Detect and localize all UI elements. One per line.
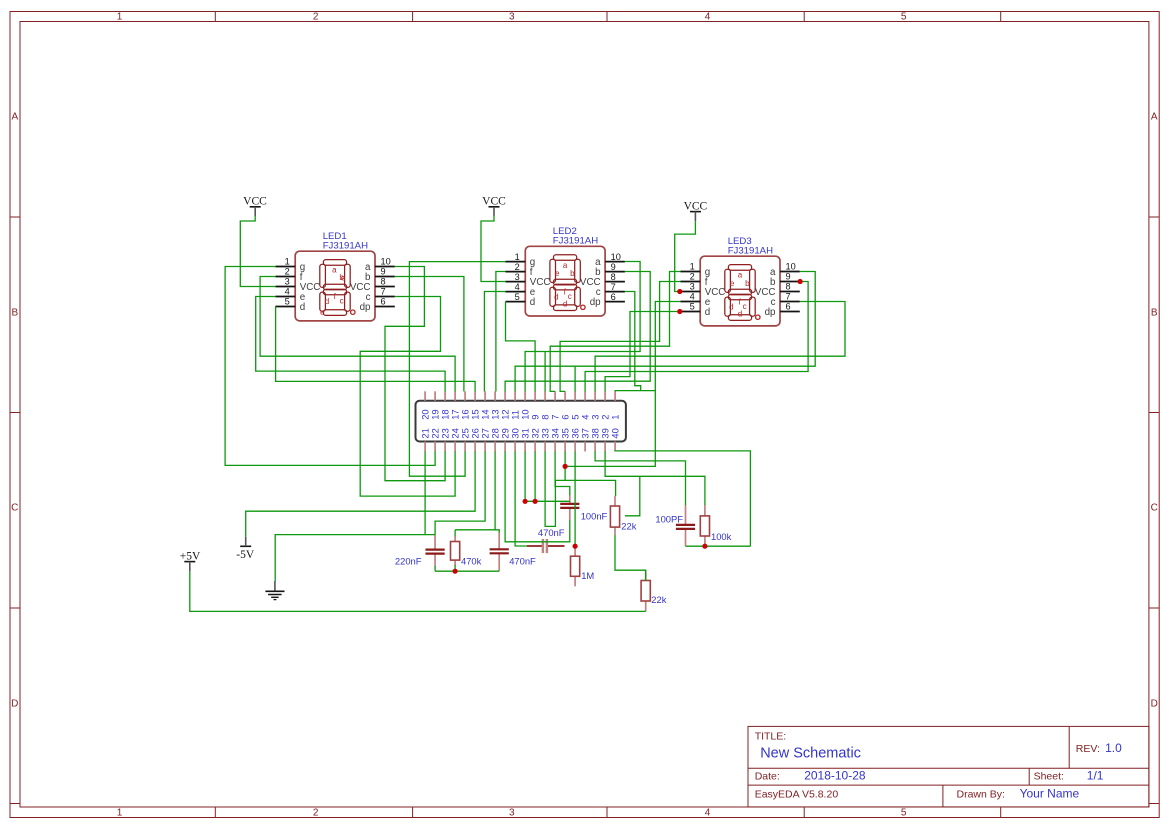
wire U1 pin39 to 100k: [605, 451, 705, 505]
svg-text:e: e: [320, 308, 325, 317]
capacitor C? 470nF (horizontal): [527, 527, 565, 553]
wire LED3 c to U1 pin3: [595, 302, 845, 392]
svg-text:10: 10: [786, 262, 796, 272]
svg-text:d: d: [738, 310, 742, 319]
junction node: [533, 499, 538, 504]
LED2 pin 4 (e): [506, 291, 526, 293]
wire U1 pin31 junction: [524, 451, 526, 501]
U1 pin 32: [534, 442, 536, 452]
svg-text:d: d: [554, 293, 558, 302]
U1 pin 21: [424, 442, 426, 452]
svg-text:A: A: [1151, 112, 1158, 123]
wire -5V to U1 pin26: [246, 451, 475, 537]
7-segment display LED3 FJ3191AH: [680, 236, 799, 326]
U1 pin 7: [554, 391, 556, 401]
wire LED1 a to U1 pin23: [385, 267, 445, 481]
wire VCC to LED1 pin3: [240, 216, 276, 287]
U1 pin 35: [564, 442, 566, 452]
svg-text:Sheet:: Sheet:: [1034, 770, 1064, 782]
svg-text:TITLE:: TITLE:: [755, 731, 787, 743]
svg-text:5: 5: [515, 292, 520, 302]
junction node: [523, 499, 528, 504]
svg-text:c: c: [340, 297, 344, 306]
LED1 pin 6 (dp): [375, 306, 395, 308]
U1 pin 17: [454, 391, 456, 401]
wire LED2 g to U1 pin25: [409, 262, 505, 477]
svg-text:2018-10-28: 2018-10-28: [804, 768, 866, 782]
LED2 pin 8 (VCC): [605, 281, 625, 283]
svg-text:1: 1: [609, 415, 620, 420]
U1 pin 29: [504, 442, 506, 452]
U1 pin 4: [584, 391, 586, 401]
svg-text:d: d: [705, 307, 710, 318]
svg-text:c: c: [743, 302, 747, 311]
LED1 pin 3 (VCC): [275, 286, 295, 288]
U1 pin 2: [604, 391, 606, 401]
LED2 pin 6 (dp): [605, 301, 625, 303]
svg-text:100nF: 100nF: [581, 511, 608, 522]
wire U1 pin5 tap: [574, 366, 576, 391]
wire LED2 f to U1 pin13: [496, 272, 506, 392]
wire 470k top lead: [454, 530, 456, 536]
U1 pin 37: [584, 442, 586, 452]
svg-text:40: 40: [609, 428, 620, 438]
svg-text:9: 9: [611, 262, 616, 272]
wire ground rail: [275, 535, 435, 581]
U1 pin 8: [544, 391, 546, 401]
svg-text:1: 1: [690, 262, 695, 272]
svg-text:New Schematic: New Schematic: [760, 746, 861, 762]
wire 470k to 470nF cap: [455, 530, 499, 533]
wire U1 pin33 link: [545, 451, 555, 526]
svg-text:220nF: 220nF: [395, 555, 422, 566]
svg-text:3: 3: [515, 272, 520, 282]
svg-text:Drawn By:: Drawn By:: [957, 789, 1005, 801]
wire LED3 e to U1 pin1: [615, 302, 680, 392]
svg-text:C: C: [11, 503, 18, 514]
wire LED1 c to U1 pin24: [360, 297, 455, 497]
wire LED2 d to U1 pin9: [506, 302, 536, 392]
svg-text:4: 4: [515, 282, 520, 292]
svg-text:1: 1: [285, 257, 290, 267]
net flag VCC (LED3): [684, 201, 708, 222]
svg-text:d: d: [563, 300, 567, 309]
U1 pin 15: [474, 391, 476, 401]
IC U1 40-pin connector: [416, 391, 626, 451]
junction node: [798, 279, 803, 284]
U1 pin 12: [504, 391, 506, 401]
svg-text:e: e: [555, 269, 560, 278]
svg-text:dp: dp: [360, 302, 371, 313]
wire U1 pin30 to 470nF cap: [515, 451, 527, 546]
svg-text:dp: dp: [590, 297, 601, 308]
svg-text:a: a: [332, 266, 337, 275]
svg-text:2: 2: [285, 267, 290, 277]
wire passives bottom bus: [435, 570, 499, 572]
wire U1 pin38 to 100PF: [595, 451, 685, 505]
7-segment display LED2 FJ3191AH: [506, 226, 625, 316]
svg-text:REV:: REV:: [1076, 743, 1100, 755]
wire node bus pins31-32 to 100nF: [524, 500, 570, 502]
U1 pin 18: [444, 391, 446, 401]
U1 pin 27: [484, 442, 486, 452]
LED1 pin 10 (a): [375, 266, 395, 268]
U1 pin 14: [484, 391, 486, 401]
wire node link to 22k: [555, 480, 615, 496]
svg-text:c: c: [568, 292, 572, 301]
svg-text:Date:: Date:: [755, 770, 780, 782]
U1 pin 31: [524, 442, 526, 452]
U1 pin 6: [564, 391, 566, 401]
svg-text:2: 2: [690, 272, 695, 282]
LED3 pin 1 (g): [680, 271, 700, 273]
svg-text:d: d: [325, 297, 329, 306]
svg-text:1: 1: [117, 11, 123, 22]
svg-text:100k: 100k: [711, 531, 732, 542]
svg-text:d: d: [530, 297, 535, 308]
svg-text:VCC: VCC: [482, 196, 506, 208]
svg-text:4: 4: [705, 11, 711, 22]
svg-text:8: 8: [786, 282, 791, 292]
wire 470k bottom lead link: [454, 565, 456, 571]
wire U1 pin29 to 100nF bottom: [505, 451, 570, 542]
wire VCC to LED3 pin3: [675, 221, 696, 291]
wire U1 pin8 tap: [544, 352, 546, 392]
svg-text:9: 9: [786, 272, 791, 282]
net flag VCC (LED2): [482, 196, 506, 216]
wire LED3 d to U1 pin2: [605, 312, 681, 392]
U1 pin 36: [574, 442, 576, 452]
svg-text:2: 2: [313, 11, 319, 22]
wire LED3 g to U1 pin7: [550, 272, 680, 392]
svg-text:a: a: [738, 271, 743, 280]
svg-text:4: 4: [690, 292, 695, 302]
U1 pin 23: [444, 442, 446, 452]
svg-text:9: 9: [381, 267, 386, 277]
wire stub branch near 22k: [625, 476, 640, 516]
ground symbol: [265, 581, 284, 600]
svg-text:5: 5: [901, 807, 907, 818]
U1 pin 5: [574, 391, 576, 401]
wire LED2 c down: [625, 292, 641, 391]
U1 pin 11: [514, 391, 516, 401]
junction node: [677, 289, 682, 294]
svg-text:5: 5: [690, 302, 695, 312]
svg-text:3: 3: [509, 11, 515, 22]
wire LED1 e to U1 pin18: [256, 297, 445, 392]
LED3 pin 5 (d): [680, 311, 700, 313]
U1 pin 38: [594, 442, 596, 452]
svg-text:dp: dp: [765, 307, 776, 318]
junction node: [563, 464, 568, 469]
svg-text:4: 4: [705, 807, 711, 818]
U1 pin 24: [454, 442, 456, 452]
resistor R? 100k: [700, 505, 731, 546]
capacitor C? 220nF: [395, 535, 445, 567]
LED1 pin 1 (g): [275, 266, 295, 268]
net flag +5V: [180, 551, 201, 572]
wire LED3 f to U1 pin6: [560, 282, 680, 392]
wire U1 pin36 to 1M: [574, 451, 576, 546]
U1 pin 20: [424, 391, 426, 401]
resistor R? 1M: [571, 546, 595, 586]
U1 pin 16: [464, 391, 466, 401]
resistor R? 470k: [451, 536, 482, 566]
wire 22k to 22k: [615, 535, 646, 581]
resistor R? 22k: [610, 496, 636, 535]
U1 pin 30: [514, 442, 516, 452]
wire LED2 e to U1 pin14: [484, 292, 505, 392]
svg-text:3: 3: [509, 807, 515, 818]
svg-text:2: 2: [515, 262, 520, 272]
U1 pin 26: [474, 442, 476, 452]
svg-text:e: e: [341, 274, 346, 283]
LED2 pin 9 (b): [605, 271, 625, 273]
wire LED3 a to U1 pin11: [515, 272, 815, 392]
LED3 pin 7 (c): [780, 301, 800, 303]
net flag VCC (LED1): [243, 196, 267, 216]
U1 pin 22: [434, 442, 436, 452]
LED2 pin 3 (VCC): [506, 281, 526, 283]
svg-text:7: 7: [611, 282, 616, 292]
svg-text:7: 7: [786, 292, 791, 302]
svg-text:FJ3191AH: FJ3191AH: [553, 236, 598, 247]
LED1 pin 5 (d): [275, 306, 295, 308]
svg-text:B: B: [1151, 308, 1158, 319]
svg-text:5: 5: [901, 11, 907, 22]
7-segment display LED1 FJ3191AH: [275, 231, 394, 321]
svg-text:3: 3: [285, 277, 290, 287]
wire VCC to LED2 pin3: [481, 216, 506, 282]
wire LED1 f to U1 pin17: [260, 277, 455, 392]
LED3 pin 2 (f): [680, 281, 700, 283]
LED3 pin 3 (VCC): [680, 291, 700, 293]
svg-text:b: b: [745, 279, 750, 288]
svg-text:b: b: [570, 269, 575, 278]
capacitor C? 100nF: [560, 495, 607, 522]
LED1 pin 4 (e): [275, 296, 295, 298]
U1 pin 40: [614, 442, 616, 452]
svg-text:1: 1: [117, 807, 123, 818]
svg-text:Your Name: Your Name: [1020, 787, 1080, 801]
U1 pin 33: [544, 442, 546, 452]
svg-text:3: 3: [690, 282, 695, 292]
U1 pin 25: [464, 442, 466, 452]
svg-text:7: 7: [381, 287, 386, 297]
U1 pin 19: [434, 391, 436, 401]
U1 pin 39: [604, 442, 606, 452]
svg-text:D: D: [1151, 699, 1158, 710]
LED1 pin 8 (VCC): [375, 286, 395, 288]
svg-text:10: 10: [381, 257, 391, 267]
svg-text:EasyEDA V5.8.20: EasyEDA V5.8.20: [755, 789, 839, 801]
LED2 pin 5 (d): [506, 301, 526, 303]
svg-text:100PF: 100PF: [655, 514, 683, 525]
wire LED1 d to U1 pin15: [276, 307, 476, 392]
LED1 pin 2 (f): [275, 276, 295, 278]
U1 pin 28: [494, 442, 496, 452]
wire U1 pin34 to 100nF top: [555, 451, 570, 495]
svg-text:FJ3191AH: FJ3191AH: [728, 246, 773, 257]
wire U1 pin27 to 220nF: [435, 451, 485, 535]
svg-text:2: 2: [313, 807, 319, 818]
svg-text:-5V: -5V: [236, 549, 255, 561]
wire LED1 g to U1 pin22: [225, 267, 435, 466]
LED3 pin 6 (dp): [780, 311, 800, 313]
svg-text:1/1: 1/1: [1087, 768, 1104, 782]
wire +5V rail: [190, 572, 646, 612]
capacitor C? 100PF: [655, 505, 695, 546]
capacitor C? 470nF: [490, 533, 536, 572]
svg-text:a: a: [563, 261, 568, 270]
junction node: [573, 544, 578, 549]
LED1 pin 9 (b): [375, 276, 395, 278]
junction node: [702, 544, 707, 549]
svg-text:8: 8: [611, 272, 616, 282]
svg-text:1: 1: [515, 252, 520, 262]
wire U1 pin32 junction: [534, 451, 536, 501]
svg-text:FJ3191AH: FJ3191AH: [323, 241, 368, 252]
svg-text:470nF: 470nF: [509, 555, 536, 566]
svg-text:6: 6: [611, 292, 616, 302]
net flag -5V: [236, 537, 255, 561]
svg-text:8: 8: [381, 277, 386, 287]
svg-text:10: 10: [611, 252, 621, 262]
svg-text:VCC: VCC: [243, 196, 267, 208]
svg-text:22k: 22k: [621, 521, 636, 532]
svg-text:e: e: [730, 279, 735, 288]
svg-text:4: 4: [285, 287, 290, 297]
wire node 100PF/100k bottom: [686, 545, 751, 547]
wire U1 pin40 to 100PF/100k bottom: [615, 451, 750, 546]
wire LED2 b to U1 pin12: [505, 272, 650, 392]
LED2 pin 10 (a): [605, 261, 625, 263]
svg-text:d: d: [300, 302, 305, 313]
wire LED1 b to U1 pin16: [395, 277, 464, 392]
LED1 pin 7 (c): [375, 296, 395, 298]
svg-text:C: C: [1151, 503, 1158, 514]
U1 pin 9: [534, 391, 536, 401]
LED3 pin 4 (e): [680, 301, 700, 303]
resistor R? 22k: [641, 570, 667, 611]
LED3 pin 8 (VCC): [780, 291, 800, 293]
LED3 pin 9 (b): [780, 281, 800, 283]
svg-text:470k: 470k: [461, 555, 482, 566]
LED3 pin 10 (a): [780, 271, 800, 273]
svg-text:470nF: 470nF: [538, 527, 565, 538]
U1 pin 1: [614, 391, 616, 401]
svg-text:d: d: [729, 303, 733, 312]
svg-text:D: D: [11, 699, 18, 710]
wire 220nF bottom lead link: [434, 566, 436, 571]
LED2 pin 2 (f): [506, 271, 526, 273]
svg-text:B: B: [11, 308, 18, 319]
svg-text:6: 6: [381, 297, 386, 307]
wire LED2 a to U1 pin10: [525, 262, 640, 392]
svg-text:1M: 1M: [581, 570, 594, 581]
svg-text:1.0: 1.0: [1105, 741, 1122, 755]
title block: [748, 726, 1149, 807]
U1 pin 34: [554, 442, 556, 452]
wire U1 pin21 to ground rail: [424, 451, 426, 534]
wire LED3 b to U1 pin4: [585, 282, 808, 392]
U1 pin 10: [524, 391, 526, 401]
junction node: [677, 309, 682, 314]
LED2 pin 7 (c): [605, 291, 625, 293]
svg-text:6: 6: [786, 302, 791, 312]
svg-text:A: A: [11, 112, 18, 123]
svg-text:22k: 22k: [651, 594, 666, 605]
U1 pin 13: [494, 391, 496, 401]
svg-text:5: 5: [285, 297, 290, 307]
LED2 pin 1 (g): [506, 261, 526, 263]
wire LED3 e branch to pin35 node: [565, 391, 655, 467]
wire U1 pin35 down: [564, 451, 566, 480]
junction node: [453, 569, 458, 574]
U1 pin 3: [594, 391, 596, 401]
wire U1 pin28 to 470k/470nF: [494, 451, 496, 530]
